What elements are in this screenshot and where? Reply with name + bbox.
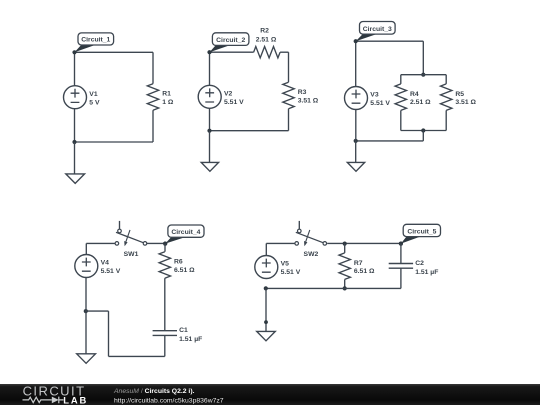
wire — [266, 242, 295, 244]
svg-text:Circuit_4: Circuit_4 — [171, 229, 200, 236]
svg-text:6.51 Ω: 6.51 Ω — [354, 268, 375, 275]
svg-text:V2: V2 — [224, 90, 233, 97]
svg-text:R7: R7 — [354, 260, 363, 267]
node junction — [343, 242, 347, 246]
wire — [400, 110, 402, 130]
R1 label 1 &#937; — [162, 91, 174, 107]
node junction — [343, 286, 347, 290]
node junction — [207, 129, 211, 133]
wire — [109, 355, 165, 357]
node junction — [399, 242, 403, 246]
svg-text:Circuit_1: Circuit_1 — [81, 37, 110, 44]
wire — [355, 41, 357, 86]
wire — [344, 244, 346, 253]
V4 label 5.51 V — [101, 260, 121, 276]
wire — [355, 110, 357, 141]
svg-text:V3: V3 — [370, 92, 379, 99]
node Circuit_1 (net flag) — [72, 33, 113, 55]
node junction — [264, 320, 268, 324]
voltage source V1 — [64, 86, 87, 109]
R7 label 6.51 &#937; — [354, 260, 375, 275]
wire — [288, 52, 290, 82]
R6 label 6.51 &#937; — [174, 259, 195, 275]
node junction — [264, 286, 268, 290]
V2 label 5.51 V — [224, 90, 244, 106]
wire — [422, 131, 424, 141]
svg-text:C2: C2 — [415, 260, 424, 267]
wire — [266, 287, 401, 289]
ground — [347, 162, 364, 171]
svg-text:5.51 V: 5.51 V — [224, 99, 244, 106]
resistor R4 — [395, 84, 406, 111]
R5 label 3.51 &#937; — [455, 91, 476, 106]
R2 label 2.51 Ohm — [256, 27, 277, 43]
wire — [85, 243, 87, 254]
wire — [75, 141, 154, 143]
resistor R3 — [283, 82, 294, 109]
wire — [152, 52, 154, 83]
wire — [152, 110, 154, 142]
svg-text:2.51 Ω: 2.51 Ω — [410, 99, 431, 106]
ground — [77, 354, 96, 364]
wire — [422, 41, 424, 74]
voltage source V4 — [75, 255, 98, 278]
node junction — [421, 73, 425, 77]
svg-text:AnesuM / Circuits Q2.2 i).: AnesuM / Circuits Q2.2 i). — [113, 388, 195, 395]
svg-text:Circuit_2: Circuit_2 — [216, 37, 245, 44]
resistor R5 — [441, 84, 452, 111]
svg-text:V1: V1 — [89, 91, 98, 98]
wire — [344, 279, 346, 288]
svg-text:5.51 V: 5.51 V — [281, 269, 301, 276]
wire — [74, 109, 76, 142]
svg-text:3.51 Ω: 3.51 Ω — [455, 99, 476, 106]
V1 label 5 V — [89, 91, 100, 107]
wire — [209, 108, 211, 131]
svg-text:6.51 Ω: 6.51 Ω — [174, 267, 195, 274]
logo resistor-diode squiggle — [23, 397, 64, 404]
V3 label 5.51 V — [370, 92, 390, 108]
svg-text:1 Ω: 1 Ω — [162, 99, 174, 106]
resistor R2 — [254, 47, 281, 58]
wire — [401, 74, 446, 76]
svg-text:SW1: SW1 — [124, 251, 139, 258]
resistor R1 — [147, 84, 158, 111]
V5 label 5.51 V — [281, 261, 301, 277]
svg-text:R1: R1 — [162, 91, 171, 98]
wire — [147, 242, 165, 244]
wire — [74, 52, 76, 86]
footer bar — [0, 384, 540, 405]
svg-text:V5: V5 — [281, 261, 290, 268]
node Circuit_5 (net flag) — [399, 224, 441, 245]
ground — [257, 331, 276, 340]
node junction — [84, 309, 88, 313]
wire — [164, 244, 166, 252]
switch SW1 — [115, 221, 147, 246]
ground — [201, 162, 218, 171]
wire — [288, 109, 290, 131]
svg-text:R5: R5 — [455, 91, 464, 98]
svg-text:R4: R4 — [410, 91, 419, 98]
wire — [164, 335, 166, 356]
svg-text:R6: R6 — [174, 259, 183, 266]
node Circuit_2 (net flag) — [207, 33, 249, 55]
voltage source V2 — [198, 85, 221, 108]
wire — [210, 51, 254, 53]
R3 label 3.51 &#937; — [298, 89, 319, 105]
footer title text — [113, 388, 224, 404]
wire — [327, 242, 401, 244]
wire — [85, 278, 87, 354]
svg-text:C1: C1 — [179, 327, 188, 334]
svg-text:V4: V4 — [101, 260, 110, 267]
svg-text:5 V: 5 V — [89, 99, 100, 106]
svg-text:3.51 Ω: 3.51 Ω — [298, 98, 319, 105]
resistor R6 — [159, 252, 170, 279]
wire — [445, 110, 447, 130]
voltage source V5 — [255, 256, 278, 279]
svg-text:5.51 V: 5.51 V — [370, 100, 390, 107]
svg-text:2.51 Ω: 2.51 Ω — [256, 37, 277, 44]
svg-text:5.51 V: 5.51 V — [101, 268, 121, 275]
wire — [401, 130, 446, 132]
wire — [209, 52, 211, 85]
R4 label 2.51 &#937; — [410, 91, 431, 106]
node junction — [163, 242, 167, 246]
CircuitLab logo wordmark — [23, 384, 89, 405]
wire circuit1 top — [75, 51, 154, 53]
node junction — [72, 140, 76, 144]
wire — [164, 278, 166, 331]
wire — [356, 140, 424, 142]
switch SW2 — [295, 221, 327, 246]
voltage source V3 — [345, 87, 368, 110]
svg-text:R3: R3 — [298, 89, 307, 96]
node Circuit_3 (net flag) — [354, 22, 396, 44]
svg-text:Circuit_3: Circuit_3 — [363, 26, 392, 33]
C2 label 1.51 &#181;F — [415, 260, 438, 276]
C1 label 1.51 &#181;F — [179, 327, 202, 343]
wire — [265, 243, 267, 255]
svg-text:http://circuitlab.com/c5ku3p83: http://circuitlab.com/c5ku3p836w7z7 — [114, 397, 224, 404]
wire — [74, 142, 76, 174]
svg-text:LAB: LAB — [63, 395, 88, 405]
svg-text:R2: R2 — [260, 27, 269, 34]
wire — [86, 310, 109, 312]
svg-text:SW2: SW2 — [304, 251, 319, 258]
node junction — [421, 128, 425, 132]
wire — [445, 75, 447, 84]
wire — [356, 40, 424, 42]
node junction — [354, 139, 358, 143]
ground — [66, 174, 85, 184]
wire — [280, 51, 288, 53]
capacitor C2 — [389, 264, 413, 269]
wire — [355, 141, 357, 163]
wire — [209, 131, 211, 163]
wire — [210, 130, 289, 132]
svg-text:Circuit_5: Circuit_5 — [407, 228, 436, 235]
node Circuit_4 (net flag) — [163, 225, 204, 246]
wire — [265, 288, 267, 335]
wire — [86, 242, 115, 244]
capacitor C1 — [153, 331, 177, 336]
svg-text:1.51 µF: 1.51 µF — [179, 336, 202, 343]
svg-text:1.51 µF: 1.51 µF — [415, 269, 438, 276]
resistor R7 — [339, 253, 350, 280]
wire — [400, 75, 402, 84]
wire — [400, 244, 402, 264]
wire — [108, 311, 110, 356]
wire — [400, 268, 402, 288]
